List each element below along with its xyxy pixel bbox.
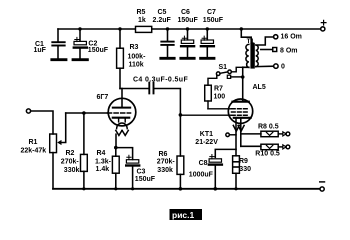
node R3 top junction xyxy=(118,27,121,30)
node T1 branch junction xyxy=(240,27,243,30)
capacitor C5 xyxy=(153,9,175,58)
grid 6G7 (dashed) xyxy=(108,112,131,114)
capacitor C7 xyxy=(201,9,224,58)
heater 6G7 xyxy=(119,118,126,122)
svg-text:330: 330 xyxy=(239,166,251,173)
heater AL5 xyxy=(233,125,239,131)
terminal KT1 xyxy=(195,131,236,146)
svg-text:R8 0.5: R8 0.5 xyxy=(258,123,279,130)
capacitor C3 xyxy=(126,155,156,189)
capacitor C8 xyxy=(189,155,222,189)
svg-text:150uF: 150uF xyxy=(178,17,199,24)
wire 8 Om tap xyxy=(261,49,273,51)
resistor R2 xyxy=(61,113,88,189)
svg-text:330k: 330k xyxy=(64,167,80,174)
switch S1 xyxy=(216,64,242,79)
resistor R1 potentiometer xyxy=(21,134,62,189)
svg-text:1k: 1k xyxy=(138,17,146,24)
svg-text:270k-: 270k- xyxy=(157,159,176,166)
svg-text:R10 0.5: R10 0.5 xyxy=(255,150,280,157)
svg-text:2.2uF: 2.2uF xyxy=(153,17,172,24)
wire heater to R10 xyxy=(241,145,261,147)
svg-text:C5: C5 xyxy=(158,9,167,16)
terminal - (minus supply) xyxy=(320,182,325,191)
svg-text:100k-: 100k- xyxy=(128,54,147,61)
node cathode junction xyxy=(114,146,118,150)
wire C4 to AL5 grid node xyxy=(154,89,180,115)
node AL5 grid junction xyxy=(179,113,183,117)
wire C8 branch xyxy=(215,149,236,157)
resistor R5 xyxy=(136,9,152,32)
svg-text:0: 0 xyxy=(281,64,285,71)
wire 6G7 anode lead xyxy=(121,89,123,108)
wire S1 square to anode node xyxy=(231,76,243,78)
wire grid node to AL5 xyxy=(180,114,230,116)
wire grid to R1 wiper xyxy=(60,113,66,143)
svg-text:150uF: 150uF xyxy=(135,176,156,183)
svg-text:1.3k-: 1.3k- xyxy=(95,158,112,165)
resistor R9 xyxy=(233,156,251,189)
wire input to R1 xyxy=(31,111,53,134)
svg-text:1000uF: 1000uF xyxy=(189,171,214,178)
tube AL5 xyxy=(228,84,266,131)
wire 6G7 grid lead xyxy=(66,112,109,114)
svg-text:110k: 110k xyxy=(129,61,144,68)
svg-text:6Г7: 6Г7 xyxy=(97,94,109,101)
svg-text:C6: C6 xyxy=(181,9,190,16)
tube 6G7 xyxy=(97,94,136,136)
svg-text:150uF: 150uF xyxy=(88,47,109,54)
anode plate 6G7 xyxy=(113,107,130,109)
node anode junction xyxy=(241,75,245,79)
anode plate AL5 xyxy=(232,101,248,103)
wire 6G7 cathode down xyxy=(115,134,117,147)
svg-text:270k-: 270k- xyxy=(61,159,80,166)
wire R7 to AL5 screen grid xyxy=(208,108,231,110)
svg-text:330k: 330k xyxy=(157,167,173,174)
node R2 bottom xyxy=(82,187,85,190)
svg-text:R3: R3 xyxy=(130,44,139,51)
secondary winding xyxy=(256,45,258,67)
resistor R10 xyxy=(255,144,289,157)
wire AL5 heater lead xyxy=(240,119,242,147)
primary winding xyxy=(246,44,249,67)
svg-text:S1: S1 xyxy=(219,64,228,71)
resistor R6 xyxy=(157,115,184,189)
svg-text:R5: R5 xyxy=(137,9,146,16)
node R4 bottom xyxy=(114,187,117,190)
resistor R3 xyxy=(117,29,146,89)
resistor R7 xyxy=(205,75,226,108)
svg-text:R9: R9 xyxy=(239,158,248,165)
svg-text:C3: C3 xyxy=(137,168,146,175)
capacitor C4 xyxy=(133,76,188,93)
svg-text:8 Om: 8 Om xyxy=(280,48,298,55)
svg-text:22k-47k: 22k-47k xyxy=(21,148,47,155)
svg-text:R2: R2 xyxy=(66,150,75,157)
resistor R4 xyxy=(95,148,119,189)
wire cathode node to C3 xyxy=(116,148,133,160)
svg-text:KT1: KT1 xyxy=(200,131,213,138)
node C8 bottom xyxy=(214,187,218,191)
resistor R8 xyxy=(258,123,290,136)
terminal + (plus supply) xyxy=(321,20,326,31)
node C7 junction xyxy=(206,27,209,30)
node C5 junction xyxy=(166,27,169,30)
wire 0 tap xyxy=(256,65,274,67)
svg-text:C8: C8 xyxy=(199,160,208,167)
wire bottom rail xyxy=(53,188,320,190)
svg-text:16 Om: 16 Om xyxy=(281,33,302,40)
node C3 bottom xyxy=(131,187,134,190)
wire AL5 cathode down xyxy=(235,119,237,156)
core xyxy=(250,43,254,69)
label fig.1 xyxy=(170,209,203,220)
svg-text:рис.1: рис.1 xyxy=(172,210,195,220)
wire S1 circle to primary bottom xyxy=(231,67,242,72)
wire top rail to T1 primary xyxy=(241,29,251,43)
cathode 6G7 xyxy=(113,117,129,119)
control grid AL5 (dashed) xyxy=(232,114,250,116)
wire 16 Om tap xyxy=(257,37,273,45)
node C2 top junction xyxy=(78,27,81,30)
wire top supply rail xyxy=(58,28,320,30)
terminal input xyxy=(26,109,30,113)
svg-text:100: 100 xyxy=(214,93,226,100)
svg-text:AL5: AL5 xyxy=(253,84,266,91)
svg-text:21-22V: 21-22V xyxy=(195,139,218,146)
svg-text:R7: R7 xyxy=(214,86,223,93)
capacitor C6 xyxy=(178,9,199,58)
svg-text:C7: C7 xyxy=(207,9,216,16)
svg-text:R6: R6 xyxy=(159,151,168,158)
svg-text:C4 0.3uF-0.5uF: C4 0.3uF-0.5uF xyxy=(133,76,188,83)
node R2 junction xyxy=(82,111,86,115)
cathode AL5 xyxy=(234,117,251,119)
wire heater to R8 xyxy=(241,133,261,135)
screen grid AL5 (dashed) xyxy=(232,108,250,110)
node R6 bottom xyxy=(179,187,183,191)
node C6 junction xyxy=(186,27,189,30)
capacitor C2 xyxy=(73,29,109,60)
svg-text:1uF: 1uF xyxy=(34,47,47,54)
node R9 bottom xyxy=(234,187,237,190)
wire anode node of 6G7: R3 to C4 xyxy=(120,88,148,90)
wire T1 primary bottom to anode node xyxy=(243,67,249,101)
svg-text:R4: R4 xyxy=(97,150,106,157)
capacitor C1 xyxy=(34,29,67,60)
transformer T1 xyxy=(246,33,302,70)
svg-text:1.4k: 1.4k xyxy=(96,166,110,173)
grid AL5 (dashed) xyxy=(232,111,250,113)
svg-text:R1: R1 xyxy=(29,139,38,146)
svg-text:150uF: 150uF xyxy=(203,17,224,24)
